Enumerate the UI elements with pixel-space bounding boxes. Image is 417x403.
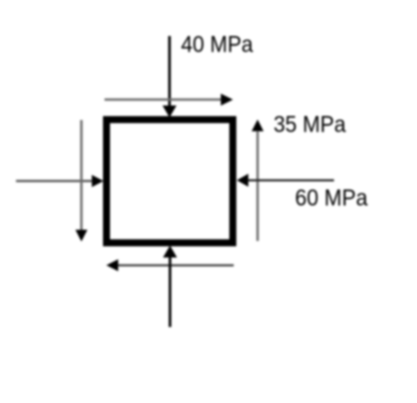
shear arrow bottom (pointing left)	[106, 259, 233, 271]
shear arrow top (pointing right)	[105, 94, 234, 106]
shear arrow right (35 MPa, pointing up)	[252, 120, 264, 242]
stress element square	[107, 120, 233, 243]
svg-text:40 MPa: 40 MPa	[181, 31, 253, 57]
arrow sigma-x right (60 MPa, pointing left into element)	[237, 174, 334, 187]
arrow sigma-y top (40 MPa, pointing down)	[163, 36, 177, 118]
shear arrow left (pointing down)	[75, 120, 87, 242]
arrow sigma-x left (pointing right into element)	[16, 175, 104, 187]
arrow sigma-y bottom (pointing up into element)	[163, 246, 177, 328]
svg-text:60 MPa: 60 MPa	[295, 185, 368, 211]
svg-text:35 MPa: 35 MPa	[274, 111, 346, 137]
